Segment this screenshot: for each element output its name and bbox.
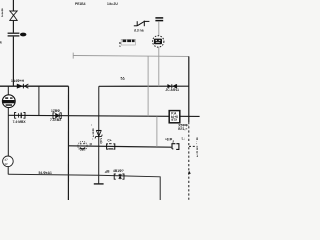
svg-text:2: 2 [1,14,3,18]
svg-text:≈8.Φ: ≈8.Φ [165,138,173,142]
svg-text:7.4·MBX: 7.4·MBX [13,120,27,124]
module A1 box [169,111,180,123]
control line gray [73,53,189,59]
terminal bar at x99 bottom [94,183,104,185]
svg-text:4B1Φ?: 4B1Φ? [113,169,124,173]
wire right vertical x189 [188,56,190,122]
svg-text:54.Φ±A1: 54.Φ±A1 [39,171,52,175]
svg-text:C+: C+ [107,138,111,142]
svg-text::: : [91,123,92,127]
zener VD2 in brackets [53,113,61,119]
diode D1 [17,84,29,89]
connector X2 rect [119,39,135,48]
svg-text:1N4Φ+H: 1N4Φ+H [11,79,25,83]
relay K1 in brackets [172,141,179,149]
meter M1 circle [2,86,15,115]
svg-text:BΞ1,≡: BΞ1,≡ [178,127,187,131]
gray vertical x148 [147,56,149,116]
wire battery row y116 [8,115,170,116]
svg-text:≈: ≈ [119,44,121,48]
dual diode VD4 [167,84,176,88]
svg-text:;: ; [196,140,197,144]
wire lamp row y146 [69,146,172,147]
wire right box top rail [99,85,189,87]
svg-text:5Δ: 5Δ [121,76,126,80]
indicator M2 circle [3,115,14,174]
capacitor C1 [8,33,20,36]
dashed stub right at relay row [189,145,198,147]
lamp M3 circle [78,141,87,150]
svg-text:1ZBΦ: 1ZBΦ [51,109,60,113]
svg-text:14ч.2U: 14ч.2U [107,2,118,6]
wire left vertical x68 [67,86,69,200]
polarity tick right of lamp [90,144,92,146]
svg-text:7.4ΞBX: 7.4ΞBX [50,118,62,122]
wire main horizontal bus y86 left [0,85,69,87]
fuse F1 in brackets [114,174,124,179]
capacitor C2 top right [155,18,163,21]
svg-text:РЕ1Б4: РЕ1Б4 [75,2,86,6]
wire left loop right drop [38,86,40,115]
varistor RU1 [134,21,150,27]
gray vertical x159 [158,22,160,86]
svg-text:9ТУ: 9ТУ [171,118,178,122]
junction blob at C1 [20,33,26,37]
wire x189 dashed lower [188,122,190,200]
svg-text:L↓: L↓ [182,136,186,140]
svg-text:d.3 na: d.3 na [134,28,144,32]
wire bottom return [8,174,160,200]
svg-text:JC AΦ11: JC AΦ11 [165,88,179,92]
battery G1 in brackets [15,112,25,118]
svg-text:1: 1 [196,154,198,158]
label right edge vertical [196,137,198,158]
svg-text:k: k [0,41,2,45]
TVS diode VD1 [10,11,18,20]
arrow on dashed line [188,171,191,175]
svg-text:⊿B: ⊿B [104,169,110,173]
zener VD3 on x99 [95,130,102,138]
wire mid vertical x99 [98,86,100,184]
wire gray drop x157 [156,116,158,147]
wire top vertical feed [12,0,14,86]
svg-text::: : [92,137,93,141]
motor M4 dashed circle [153,36,164,47]
capacitor C3 on row [107,144,115,149]
